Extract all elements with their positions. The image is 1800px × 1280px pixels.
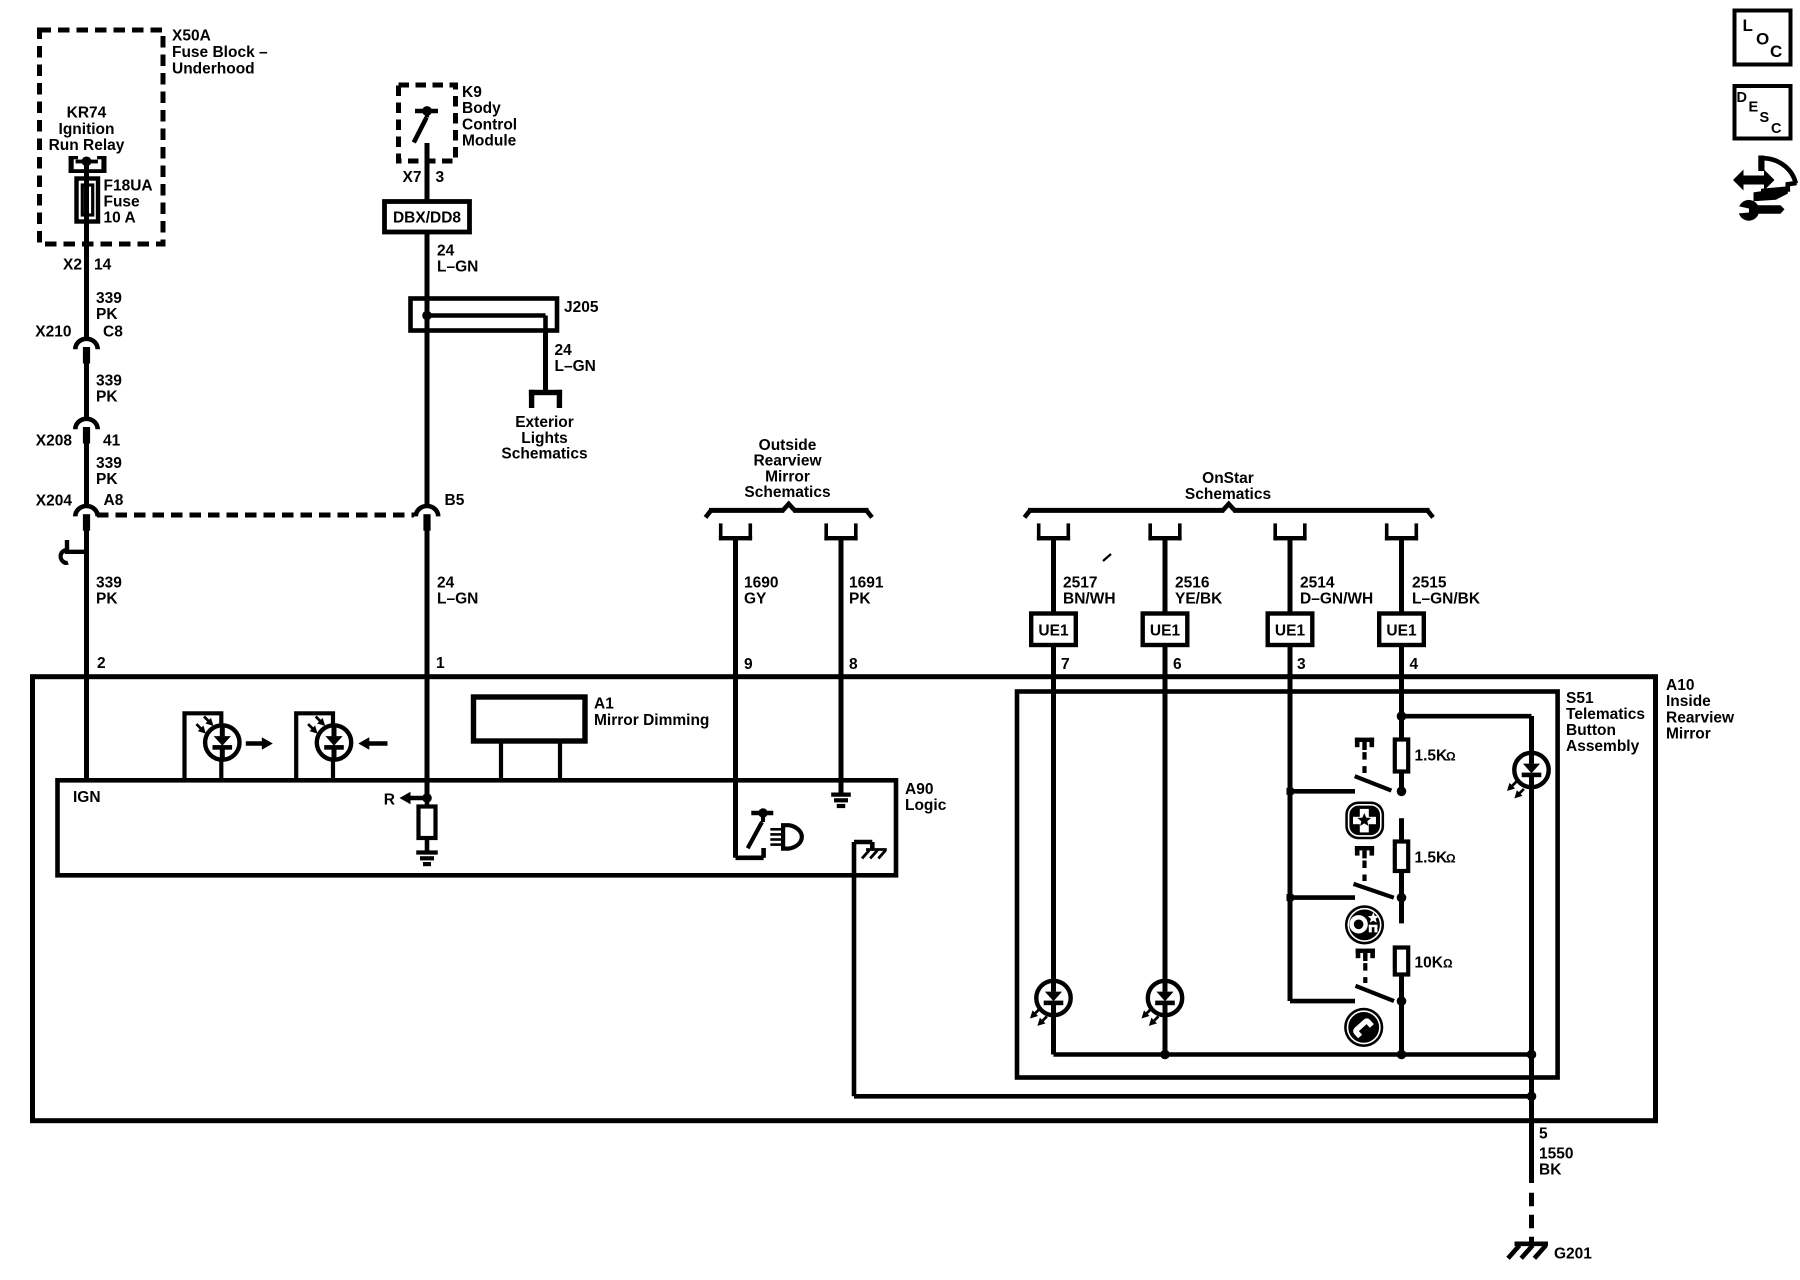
svg-text:2516: 2516 bbox=[1175, 575, 1210, 592]
svg-text:Outside: Outside bbox=[759, 437, 817, 454]
svg-text:PK: PK bbox=[849, 590, 871, 607]
svg-text:A1: A1 bbox=[594, 696, 614, 713]
svg-text:Logic: Logic bbox=[905, 797, 947, 814]
svg-text:Ω: Ω bbox=[1443, 957, 1453, 971]
svg-text:PK: PK bbox=[96, 388, 118, 405]
svg-text:A90: A90 bbox=[905, 781, 933, 798]
svg-text:Body: Body bbox=[462, 100, 501, 117]
svg-text:L–GN: L–GN bbox=[555, 358, 596, 375]
svg-text:S51: S51 bbox=[1566, 690, 1594, 707]
svg-text:Run Relay: Run Relay bbox=[49, 137, 125, 154]
svg-text:R: R bbox=[384, 792, 395, 809]
svg-text:Fuse Block –: Fuse Block – bbox=[172, 44, 268, 61]
svg-text:14: 14 bbox=[94, 257, 112, 274]
svg-text:Underhood: Underhood bbox=[172, 61, 255, 78]
svg-text:X7: X7 bbox=[403, 169, 422, 186]
svg-text:Ignition: Ignition bbox=[59, 121, 115, 138]
svg-text:C8: C8 bbox=[103, 324, 123, 341]
svg-text:OnStar: OnStar bbox=[1202, 470, 1254, 487]
svg-text:Mirror: Mirror bbox=[765, 468, 810, 485]
svg-text:Rearview: Rearview bbox=[1666, 709, 1735, 726]
svg-text:BN/WH: BN/WH bbox=[1063, 590, 1116, 607]
svg-text:Ω: Ω bbox=[1446, 852, 1456, 866]
svg-text:A8: A8 bbox=[104, 492, 124, 509]
svg-text:339: 339 bbox=[96, 575, 122, 592]
svg-text:Control: Control bbox=[462, 116, 517, 133]
svg-text:339: 339 bbox=[96, 373, 122, 390]
svg-text:6: 6 bbox=[1173, 656, 1182, 673]
svg-text:3: 3 bbox=[436, 169, 445, 186]
svg-text:DBX/DD8: DBX/DD8 bbox=[393, 210, 461, 227]
svg-text:339: 339 bbox=[96, 455, 122, 472]
svg-text:X208: X208 bbox=[36, 433, 73, 450]
svg-text:Module: Module bbox=[462, 133, 517, 150]
svg-text:24: 24 bbox=[437, 575, 455, 592]
svg-text:PK: PK bbox=[96, 471, 118, 488]
svg-text:B5: B5 bbox=[445, 492, 465, 509]
svg-text:X210: X210 bbox=[35, 324, 71, 341]
svg-text:1690: 1690 bbox=[744, 575, 778, 592]
svg-text:7: 7 bbox=[1061, 656, 1070, 673]
svg-text:Inside: Inside bbox=[1666, 693, 1711, 710]
svg-text:9: 9 bbox=[744, 656, 753, 673]
svg-text:PK: PK bbox=[96, 306, 118, 323]
svg-text:Schematics: Schematics bbox=[501, 446, 587, 463]
svg-text:24: 24 bbox=[555, 342, 573, 359]
svg-text:KR74: KR74 bbox=[67, 105, 107, 122]
svg-text:4: 4 bbox=[1410, 656, 1419, 673]
svg-text:1.5K: 1.5K bbox=[1415, 850, 1449, 867]
svg-text:Mirror: Mirror bbox=[1666, 726, 1711, 743]
svg-text:Rearview: Rearview bbox=[753, 453, 822, 470]
svg-text:S: S bbox=[1760, 110, 1770, 126]
svg-text:UE1: UE1 bbox=[1038, 623, 1069, 640]
svg-text:2517: 2517 bbox=[1063, 575, 1097, 592]
svg-text:L–GN/BK: L–GN/BK bbox=[1412, 590, 1481, 607]
svg-text:3: 3 bbox=[1297, 656, 1306, 673]
svg-text:F18UA: F18UA bbox=[104, 178, 153, 195]
svg-text:L: L bbox=[1743, 16, 1753, 35]
svg-text:10 A: 10 A bbox=[104, 210, 136, 227]
svg-text:Ω: Ω bbox=[1446, 750, 1456, 764]
svg-text:E: E bbox=[1749, 100, 1759, 116]
svg-text:C: C bbox=[1771, 121, 1782, 137]
svg-text:Exterior: Exterior bbox=[515, 414, 574, 431]
svg-text:BK: BK bbox=[1539, 1162, 1562, 1179]
svg-text:Button: Button bbox=[1566, 722, 1616, 739]
svg-text:X204: X204 bbox=[36, 493, 73, 510]
svg-text:Schematics: Schematics bbox=[744, 484, 830, 501]
svg-text:PK: PK bbox=[96, 590, 118, 607]
svg-text:C: C bbox=[1770, 42, 1782, 61]
svg-text:8: 8 bbox=[849, 656, 858, 673]
svg-text:G201: G201 bbox=[1554, 1246, 1592, 1263]
svg-text:J205: J205 bbox=[564, 299, 599, 316]
svg-text:Schematics: Schematics bbox=[1185, 486, 1271, 503]
svg-text:YE/BK: YE/BK bbox=[1175, 590, 1223, 607]
svg-text:41: 41 bbox=[103, 433, 121, 450]
svg-text:Assembly: Assembly bbox=[1566, 738, 1640, 755]
svg-text:2514: 2514 bbox=[1300, 575, 1335, 592]
svg-text:10K: 10K bbox=[1415, 955, 1444, 972]
svg-text:339: 339 bbox=[96, 290, 122, 307]
svg-text:2: 2 bbox=[97, 655, 106, 672]
svg-text:D: D bbox=[1737, 90, 1747, 106]
svg-text:O: O bbox=[1756, 30, 1769, 49]
svg-text:X50A: X50A bbox=[172, 28, 211, 45]
svg-text:D–GN/WH: D–GN/WH bbox=[1300, 590, 1373, 607]
svg-text:UE1: UE1 bbox=[1275, 623, 1306, 640]
svg-text:A10: A10 bbox=[1666, 677, 1694, 694]
svg-text:IGN: IGN bbox=[73, 789, 101, 806]
svg-text:1: 1 bbox=[436, 655, 445, 672]
svg-text:UE1: UE1 bbox=[1150, 623, 1181, 640]
svg-text:UE1: UE1 bbox=[1386, 623, 1417, 640]
svg-text:2515: 2515 bbox=[1412, 575, 1447, 592]
svg-text:L–GN: L–GN bbox=[437, 258, 478, 275]
svg-text:1550: 1550 bbox=[1539, 1146, 1573, 1163]
svg-text:GY: GY bbox=[744, 590, 767, 607]
svg-text:Mirror Dimming: Mirror Dimming bbox=[594, 712, 709, 729]
svg-text:Lights: Lights bbox=[521, 430, 568, 447]
svg-text:1691: 1691 bbox=[849, 575, 884, 592]
svg-text:5: 5 bbox=[1539, 1126, 1548, 1143]
svg-text:1.5K: 1.5K bbox=[1415, 748, 1449, 765]
svg-text:24: 24 bbox=[437, 243, 455, 260]
svg-text:K9: K9 bbox=[462, 84, 482, 101]
svg-text:Fuse: Fuse bbox=[104, 194, 141, 211]
svg-text:X2: X2 bbox=[63, 257, 82, 274]
svg-text:L–GN: L–GN bbox=[437, 590, 478, 607]
svg-text:Telematics: Telematics bbox=[1566, 706, 1645, 723]
